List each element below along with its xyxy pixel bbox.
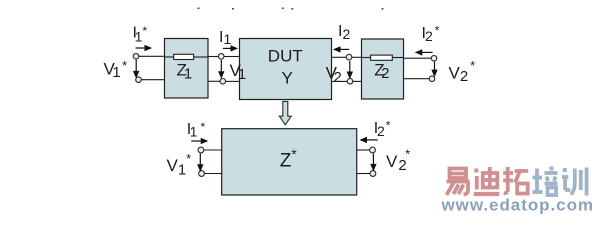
svg-text:I2: I2 (338, 23, 350, 42)
svg-text:Y: Y (282, 69, 293, 88)
svg-text:DUT: DUT (268, 46, 303, 65)
svg-text:I1: I1 (219, 29, 231, 47)
svg-text:www.edatop.com: www.edatop.com (441, 196, 594, 215)
